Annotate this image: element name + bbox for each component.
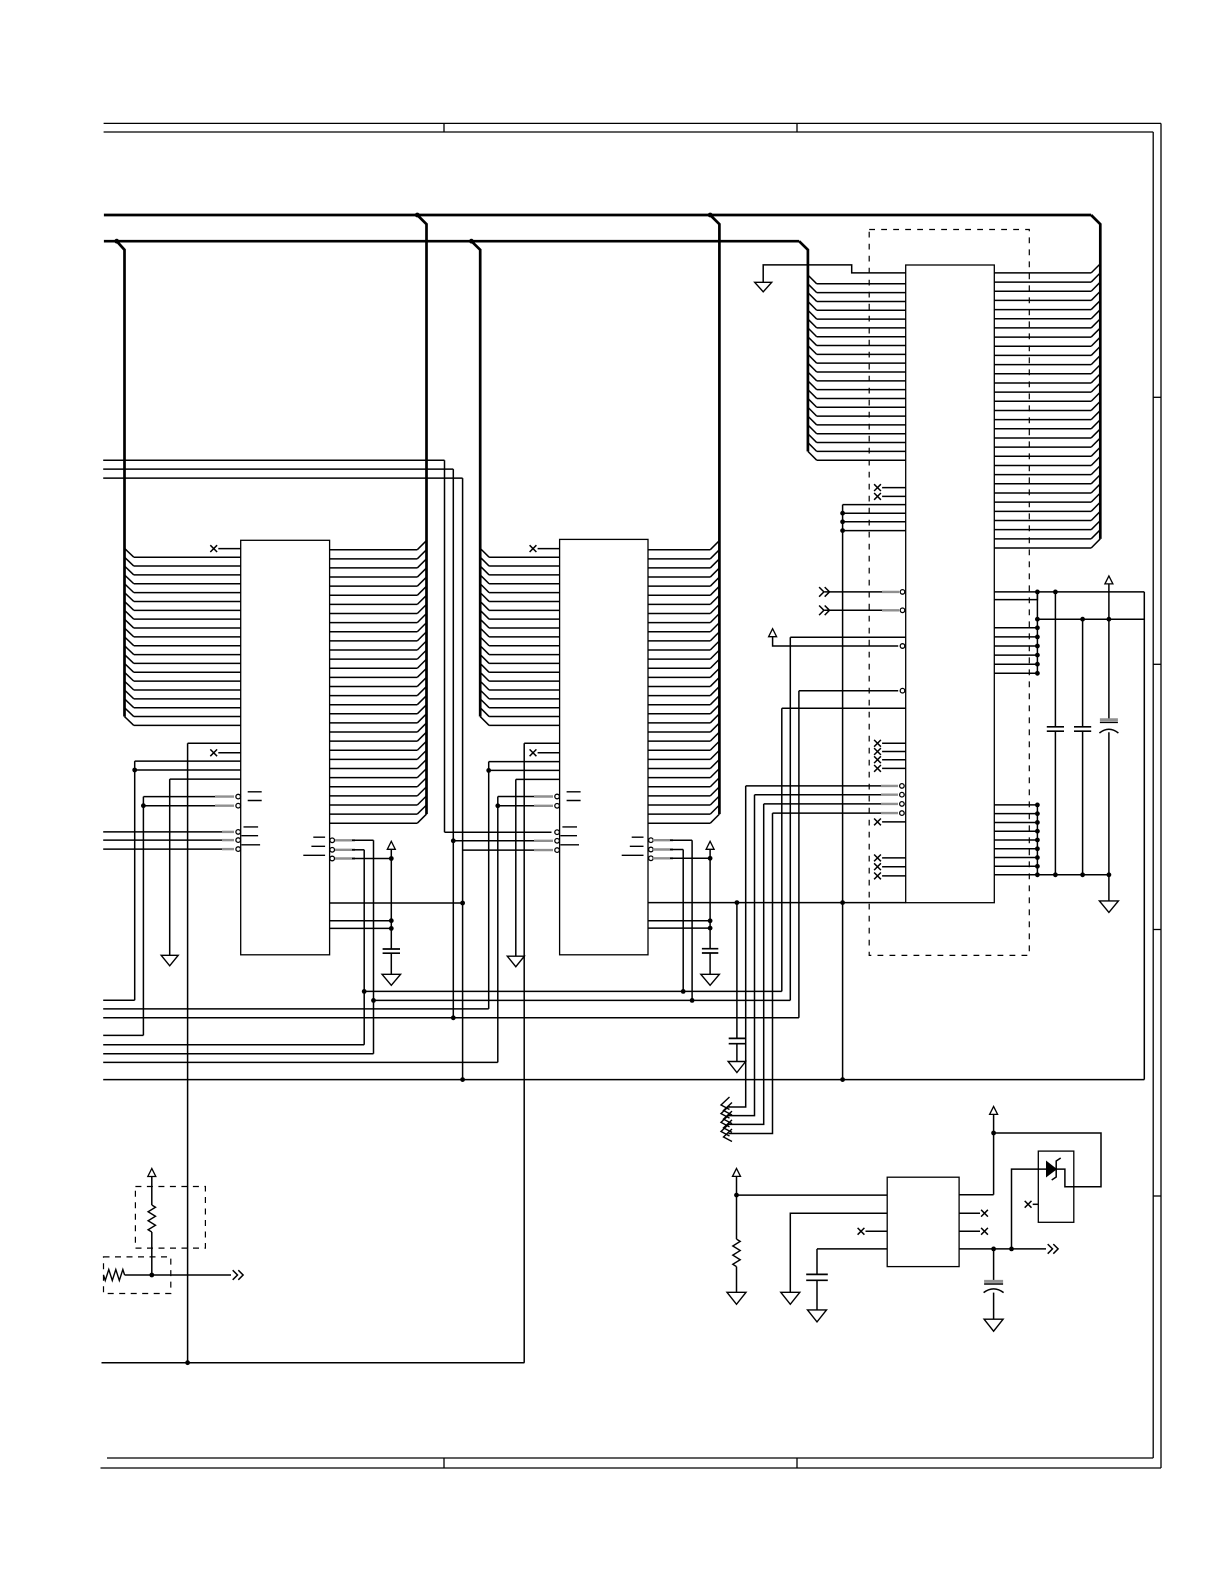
pin circle U1 y805 [236, 803, 241, 808]
wire U1 right pin row 22 [330, 740, 418, 742]
junction x373-y1000 [371, 998, 376, 1003]
wire U3 right pin row 15 [994, 400, 1091, 402]
wire U2 right pin diagonal 2 [710, 550, 719, 559]
junction y619-x1082 [1080, 617, 1085, 622]
wire U1 pin row y805 [143, 805, 232, 807]
stub U3 y591 [882, 591, 899, 593]
wire U3 left pin diagonal 11 [808, 363, 817, 372]
wire U1 left pin diagonal 7 [125, 601, 134, 610]
wire U1 right y903 [330, 902, 463, 904]
wire U2 right pin row 6 [648, 594, 710, 596]
wire U1 right pin diagonal 4 [417, 568, 426, 577]
wire x993 cap to gnd [993, 1293, 995, 1320]
wire U2 right pin diagonal 22 [710, 732, 719, 741]
wire U2 left pin diagonal 12 [480, 646, 489, 655]
border frame outer bottom [101, 1467, 1162, 1469]
wire U1 right pin row 8 [330, 613, 418, 615]
wire U1 right pin diagonal 8 [417, 604, 426, 613]
wire U1 right pin diagonal 23 [417, 741, 426, 750]
wire U3 left pin row 15 [817, 406, 906, 408]
wire vertical x798 [798, 691, 800, 1018]
wire U1 left pin row 20 [134, 724, 241, 726]
wire U3 left pin row 5 [817, 318, 906, 320]
wire U3 left pin row 17 [817, 424, 906, 426]
wire row y1008 [103, 1008, 489, 1010]
stub U2 right y858 [653, 857, 673, 859]
wire U2 left pin diagonal 18 [480, 699, 489, 708]
bus HB1 bend to vertical VB3R [1091, 215, 1100, 539]
wire U3 right pin row 28 [994, 519, 1091, 521]
wire U4 pin right y1213 [959, 1212, 980, 1214]
wire U1 right pin row 4 [330, 576, 418, 578]
wire U3 right pin row 7 [994, 327, 1091, 329]
wire U3 right pin row 9 [994, 345, 1091, 347]
wire R3 to gnd [736, 1267, 738, 1293]
stub U1 pin y796 [215, 795, 234, 797]
junction HB1-VB1R [415, 213, 420, 218]
wire U2 right pin row 28 [648, 795, 710, 797]
wire U3 right pin row 8 [994, 336, 1091, 338]
pin circle U3 y785 [900, 784, 905, 789]
wire x736 vcc [736, 1176, 738, 1239]
wire U2 right pin diagonal 29 [710, 796, 719, 805]
junction x391-y920 [389, 918, 394, 923]
wire U2 right pin row 5 [648, 585, 710, 587]
wire vertical x444 [444, 460, 446, 832]
wire U2 right pin diagonal 17 [710, 686, 719, 695]
frame tick bottom 2 [796, 1458, 798, 1468]
pin circle U3 y591 [900, 590, 905, 595]
wire U1 left pin row 11 [134, 645, 241, 647]
wire vertical x515 to ground [515, 779, 517, 956]
wire U1 right pin row 23 [330, 749, 418, 751]
wire U4 pin left y1231 [866, 1230, 888, 1232]
wire U3 left pin diagonal 5 [808, 310, 817, 319]
stub U1 right y849 [335, 849, 355, 851]
wire U1 left pin diagonal 12 [125, 646, 134, 655]
wire U1 left pin diagonal 16 [125, 681, 134, 690]
diode D1 box [1038, 1151, 1074, 1222]
frame tick right 2 [1153, 663, 1161, 665]
wire U2 pin row y850 [463, 849, 552, 851]
stub U2 pin y805 [534, 805, 553, 807]
wire U1 pin row y796 [143, 796, 232, 798]
wire vertical x683 [682, 850, 684, 992]
pin circle U3 y610 [900, 608, 905, 613]
wire U2 right pin row 11 [648, 640, 710, 642]
wire row y1053 left [103, 1053, 373, 1055]
wire U2 left pin row 12 [489, 654, 559, 656]
border frame outer right [1160, 123, 1162, 1468]
wire U1 right pin diagonal 11 [417, 632, 426, 641]
wire U2 right pin diagonal 18 [710, 696, 719, 705]
wire row y469 [103, 468, 453, 470]
wire U3 right pin diagonal 24 [1091, 475, 1100, 484]
wire U1 right pin diagonal 1 [417, 541, 426, 550]
wire U4 pin left y1213 [790, 1213, 887, 1292]
wire U2 left pin diagonal 15 [480, 672, 489, 681]
wire U4 pin left y1195 [737, 1194, 888, 1196]
wire U1 right y928 [330, 927, 392, 929]
stub U3 y794 [881, 794, 898, 796]
wire U1 right pin diagonal 27 [417, 778, 426, 787]
junction x842-y521 [840, 519, 845, 524]
power arrow U4 left [733, 1168, 741, 1176]
wire U2 right pin diagonal 5 [710, 577, 719, 586]
wire U3 left pin row 18 [817, 433, 906, 435]
wire U2 right pin row 14 [648, 667, 710, 669]
wire D1 X stub [1033, 1203, 1039, 1205]
wire U3 pin y591 right [994, 591, 1144, 593]
wire U3 right pin diagonal 31 [1091, 539, 1100, 548]
wire U2 left pin row 16 [489, 689, 559, 691]
wire U1 right pin row 25 [330, 768, 418, 770]
capacitor x736 [729, 1038, 745, 1043]
wire U2 right pin diagonal 23 [710, 741, 719, 750]
wire U1 right pin row 11 [330, 640, 418, 642]
internal bars U2 left pair [567, 792, 581, 801]
wire U3 right pin row 20 [994, 446, 1091, 448]
internal bars U1 right [303, 837, 325, 855]
wire U3 left pin diagonal 2 [808, 284, 817, 293]
wire U3 right pin y857 [994, 857, 1037, 859]
wire cap2 top [1082, 619, 1084, 727]
wire U3 X y821 [882, 821, 906, 823]
wire x736 cap to gnd [736, 1044, 738, 1062]
wire vertical x373 [373, 840, 375, 1053]
wire U3 right pin diagonal 17 [1091, 410, 1100, 419]
wire U3 right pin row 2 [994, 281, 1091, 283]
wire row y1062 [103, 1061, 498, 1063]
junction x1037b-y866 [1035, 864, 1040, 869]
wire VCC to U3 pin y646 [773, 637, 899, 646]
frame tick top 1 [443, 123, 445, 132]
IC U4 body [887, 1177, 959, 1266]
wire U1 right pin diagonal 7 [417, 595, 426, 604]
wire U2 left pin row 6 [489, 600, 559, 602]
junction x1037-y655 [1035, 653, 1040, 658]
wire U3 right pin y839 [994, 839, 1037, 841]
wire U3 right pin diagonal 16 [1091, 401, 1100, 410]
bus HB2 bend to vertical VB3L [799, 241, 808, 451]
wire U2 right pin row 2 [648, 558, 710, 560]
wire U2 right pin diagonal 13 [710, 650, 719, 659]
wire U1 left pin row 17 [134, 698, 241, 700]
ground x817 [808, 1310, 827, 1322]
wire U3 left pin diagonal 16 [808, 407, 817, 416]
junction x453-y1017 [451, 1015, 456, 1020]
wire U2 right pin row 19 [648, 713, 710, 715]
wire U3 left pin row 21 [817, 459, 906, 461]
wire U3 right pin diagonal 3 [1091, 282, 1100, 291]
wire U2 left pin diagonal 9 [480, 619, 489, 628]
no-connect X U1 pin [210, 545, 217, 552]
wire row y1017 [103, 1017, 799, 1019]
frame tick right 4 [1153, 1195, 1161, 1197]
wire row y1079 [103, 1079, 1144, 1081]
wire U1 left pin row 18 [134, 707, 241, 709]
wire U2 left pin diagonal 11 [480, 637, 489, 646]
wire break symbol y1124 [721, 1114, 732, 1132]
wire U2 right pin row 8 [648, 613, 710, 615]
wire U3 right pin diagonal 5 [1091, 300, 1100, 309]
pin circle U2 right y840 [649, 838, 654, 843]
capacitor C-U3c electrolytic [1100, 718, 1118, 721]
resistor R1 [148, 1205, 155, 1232]
capacitor C x993 electrolytic [984, 1280, 1003, 1283]
no-connect X U3 y487 [874, 484, 881, 491]
wire U3 right pin row 6 [994, 318, 1091, 320]
wire U2 right pin diagonal 1 [710, 541, 719, 550]
wire U3 left pin row 11 [817, 371, 906, 373]
wire U3 left pin row 12 [817, 380, 906, 382]
wire U2 pin row y832 [445, 831, 552, 833]
pin circle U1 right y858 [330, 856, 335, 861]
wire U2 right y840 [670, 839, 692, 841]
wire U1 right pin row 19 [330, 713, 418, 715]
junction x842-y530 [840, 528, 845, 533]
wire U1 left pin diagonal 17 [125, 690, 134, 699]
wire U2 right pin row 30 [648, 813, 710, 815]
wire U1 right pin row 15 [330, 676, 418, 678]
pin circle U3 y794 [900, 792, 905, 797]
junction x1037b-y857 [1035, 855, 1040, 860]
capacitor C-U3b [1074, 727, 1091, 731]
junction x736-y1195 [734, 1193, 739, 1198]
power arrow x1108 [1105, 576, 1113, 584]
wire U3 pin y591 [825, 591, 899, 593]
resistor R2 [104, 1270, 125, 1281]
no-connect X U3 y496 [874, 493, 881, 500]
wire U3 right pin row 27 [994, 510, 1091, 512]
no-connect X U4 y1231 [981, 1228, 988, 1235]
junction y874-x1037 [1035, 872, 1040, 877]
wire vertical x745 to break [729, 786, 746, 1107]
wire U3 right pin row 22 [994, 464, 1091, 466]
wire U1 left pin diagonal 1 [125, 548, 134, 557]
wire U3 right pin diagonal 2 [1091, 273, 1100, 282]
wire U1 left pin diagonal 9 [125, 619, 134, 628]
wire cap2 bottom [1082, 731, 1084, 875]
wire U1 left pin diagonal 11 [125, 637, 134, 646]
wire U1 left pin row 2 [134, 565, 241, 567]
wire U2 right pin row 31 [648, 822, 710, 824]
wire U3 right pin y646 [994, 645, 1037, 647]
wire U3 left pin diagonal 18 [808, 425, 817, 434]
junction HB2-VB1L [114, 239, 119, 244]
wire U3 right pin row 12 [994, 373, 1091, 375]
wire U1 right pin diagonal 17 [417, 686, 426, 695]
wire U1 left pin diagonal 15 [125, 672, 134, 681]
no-connect X U3 y768 [874, 765, 881, 772]
stub U1 pin y805 [215, 805, 234, 807]
wire U2 right pin diagonal 21 [710, 723, 719, 732]
wire vertical x754 to break [729, 795, 755, 1116]
wire U2 left pin diagonal 1 [480, 548, 489, 557]
junction x1037-y646 [1035, 644, 1040, 649]
wire U3 left pin row 19 [817, 442, 906, 444]
wire row y478 [103, 477, 462, 479]
stub U1 pin y831 [222, 831, 234, 833]
wire cap1 top [1054, 592, 1056, 727]
wire U2 left pin diagonal 3 [480, 566, 489, 575]
wire U3 right pin y813 [994, 813, 1037, 815]
wire vertical x692 [691, 840, 693, 1000]
wire rail GND y874 [994, 874, 1109, 876]
wire bus x1037 upper [1036, 592, 1038, 673]
wire U3 right pin row 26 [994, 501, 1091, 503]
wire U3 right pin y673 [994, 672, 1037, 674]
wire U1 right pin row 20 [330, 722, 418, 724]
wire VCC x710 [709, 849, 711, 948]
wire vertical x169 to ground [169, 779, 171, 955]
wire vertical x364 [363, 850, 365, 1045]
wire U2 right pin diagonal 27 [710, 778, 719, 787]
wire U3 left pin diagonal 19 [808, 434, 817, 443]
wire U1 right pin row 26 [330, 777, 418, 779]
wire row y902 U2 to U3 [648, 902, 906, 904]
wire U1 right pin row 6 [330, 594, 418, 596]
wire U1 pin row y761 [135, 760, 241, 762]
wire U3 right pin y664 [994, 663, 1037, 665]
junction y591-x1055 [1053, 590, 1058, 595]
internal bars U1 left triple [242, 827, 261, 845]
pin circle U1 right y840 [330, 838, 335, 843]
wire vertical x736 cap branch [736, 903, 738, 1039]
junction y903-x462 [460, 901, 465, 906]
IC U3 body [906, 265, 995, 903]
wire U2 left pin row 19 [489, 716, 559, 718]
junction x391-y858 [389, 856, 394, 861]
wire U1 right pin diagonal 13 [417, 650, 426, 659]
wire U3 left pin row 7 [817, 336, 906, 338]
wire U3 X y857 [882, 857, 906, 859]
junction x710-y928 [708, 926, 713, 931]
wire U3 right pin row 21 [994, 455, 1091, 457]
junction x1037-y636 [1035, 635, 1040, 640]
wire U2 pin row y805 [498, 805, 552, 807]
wire row y1035 left [103, 1034, 143, 1036]
junction x364-y991 [362, 989, 367, 994]
wire U1 right y858 [352, 858, 391, 860]
pin circle U1 right y849 [330, 848, 335, 853]
stub U1 right y858 [335, 857, 355, 859]
wire U1 pin row y779 [170, 778, 241, 780]
wire U1 right pin diagonal 26 [417, 769, 426, 778]
wire U3 pin y708 [782, 707, 906, 709]
wire U3 left pin diagonal 13 [808, 381, 817, 390]
wire U1 left pin row 12 [134, 654, 241, 656]
power arrow U3 y628 [769, 629, 777, 637]
wire U1 left pin diagonal 2 [125, 557, 134, 566]
wire U1 right pin row 29 [330, 804, 418, 806]
wire U3 right pin y848 [994, 848, 1037, 850]
wire U1 right pin row 27 [330, 786, 418, 788]
pin circle U2 right y849 [649, 847, 654, 852]
wire U3 right pin diagonal 20 [1091, 438, 1100, 447]
wire U1 right pin diagonal 6 [417, 586, 426, 595]
wire U1 pin row y743 [188, 742, 241, 744]
wire U3 right pin diagonal 21 [1091, 447, 1100, 456]
wire U2 left pin diagonal 17 [480, 690, 489, 699]
wire U1 right pin row 31 [330, 822, 418, 824]
wire U2 left pin row 4 [489, 583, 559, 585]
stub U3 y813 [881, 812, 898, 814]
wire U1 left pin row 14 [134, 671, 241, 673]
wire row y1000 right [374, 999, 791, 1001]
wire U3 right pin diagonal 30 [1091, 530, 1100, 539]
wire U2 left pin diagonal 5 [480, 584, 489, 593]
junction x1037b-y831 [1035, 829, 1040, 834]
wire U4 pin right y1231 [959, 1230, 980, 1232]
wire U3 left pin row 9 [817, 353, 906, 355]
no-connect X U2 pin 2 [530, 749, 537, 756]
wire U3 right pin row 18 [994, 428, 1091, 430]
wire U1 right pin row 12 [330, 649, 418, 651]
wire U3 right pin diagonal 13 [1091, 374, 1100, 383]
IC U1 body [241, 540, 330, 955]
wire U1 right pin diagonal 15 [417, 668, 426, 677]
wire U3 left pin diagonal 20 [808, 443, 817, 452]
connector chevron U4 out [1048, 1244, 1058, 1254]
pin circle U1 y840 [236, 838, 241, 843]
wire U3 left pin row 13 [817, 389, 906, 391]
wire U3 left pin diagonal 14 [808, 390, 817, 399]
junction y874-x1082 [1080, 872, 1085, 877]
wire U2 right y928 [648, 927, 710, 929]
pin circle U2 y805 [555, 804, 560, 809]
wire U2 left pin row 14 [489, 671, 559, 673]
wire U3 right pin diagonal 6 [1091, 310, 1100, 319]
pin circle U3 y690 [900, 688, 905, 693]
wire U3 right pin diagonal 25 [1091, 484, 1100, 493]
wire U2 right pin diagonal 8 [710, 604, 719, 613]
wire U3 X y743 [882, 742, 906, 744]
border frame inner right [1152, 132, 1154, 1458]
wire U3 X y496 [882, 495, 906, 497]
frame tick top 2 [796, 123, 798, 132]
wire U1 left pin diagonal 19 [125, 708, 134, 717]
junction x842-y513 [840, 511, 845, 516]
junction x488-y770 [486, 768, 491, 773]
wire R1 top [151, 1177, 153, 1206]
wire U3 right pin diagonal 23 [1091, 465, 1100, 474]
ground x993 [984, 1319, 1003, 1331]
resistor R3 [733, 1239, 740, 1267]
wire U2 left pin diagonal 10 [480, 628, 489, 637]
wire vertical x763 to break [729, 804, 764, 1125]
no-connect X U3 y857 [874, 855, 881, 862]
junction y902-x842 [840, 900, 845, 905]
wire U3 right pin y866 [994, 865, 1037, 867]
wire U3 right pin diagonal 10 [1091, 346, 1100, 355]
wire U3 pin y599 [994, 592, 1037, 600]
wire U2 pin row y761 [489, 761, 560, 763]
junction x710-y920 [708, 918, 713, 923]
wire U2 right pin diagonal 31 [710, 814, 719, 823]
stub U2 right y840 [653, 839, 673, 841]
wire break symbol y1115 [721, 1106, 732, 1124]
wire vertical x453 [452, 469, 454, 1018]
no-connect X U4 left [858, 1228, 865, 1235]
wire U1 left pin row 3 [134, 574, 241, 576]
wire U2 pin row y770 [489, 769, 560, 771]
stub U1 pin y849 [222, 848, 234, 850]
wire U3 X y751 [882, 751, 906, 753]
wire U2 left pin diagonal 4 [480, 575, 489, 584]
diode D1 [1047, 1162, 1057, 1177]
wire row y1275 [125, 1274, 231, 1276]
